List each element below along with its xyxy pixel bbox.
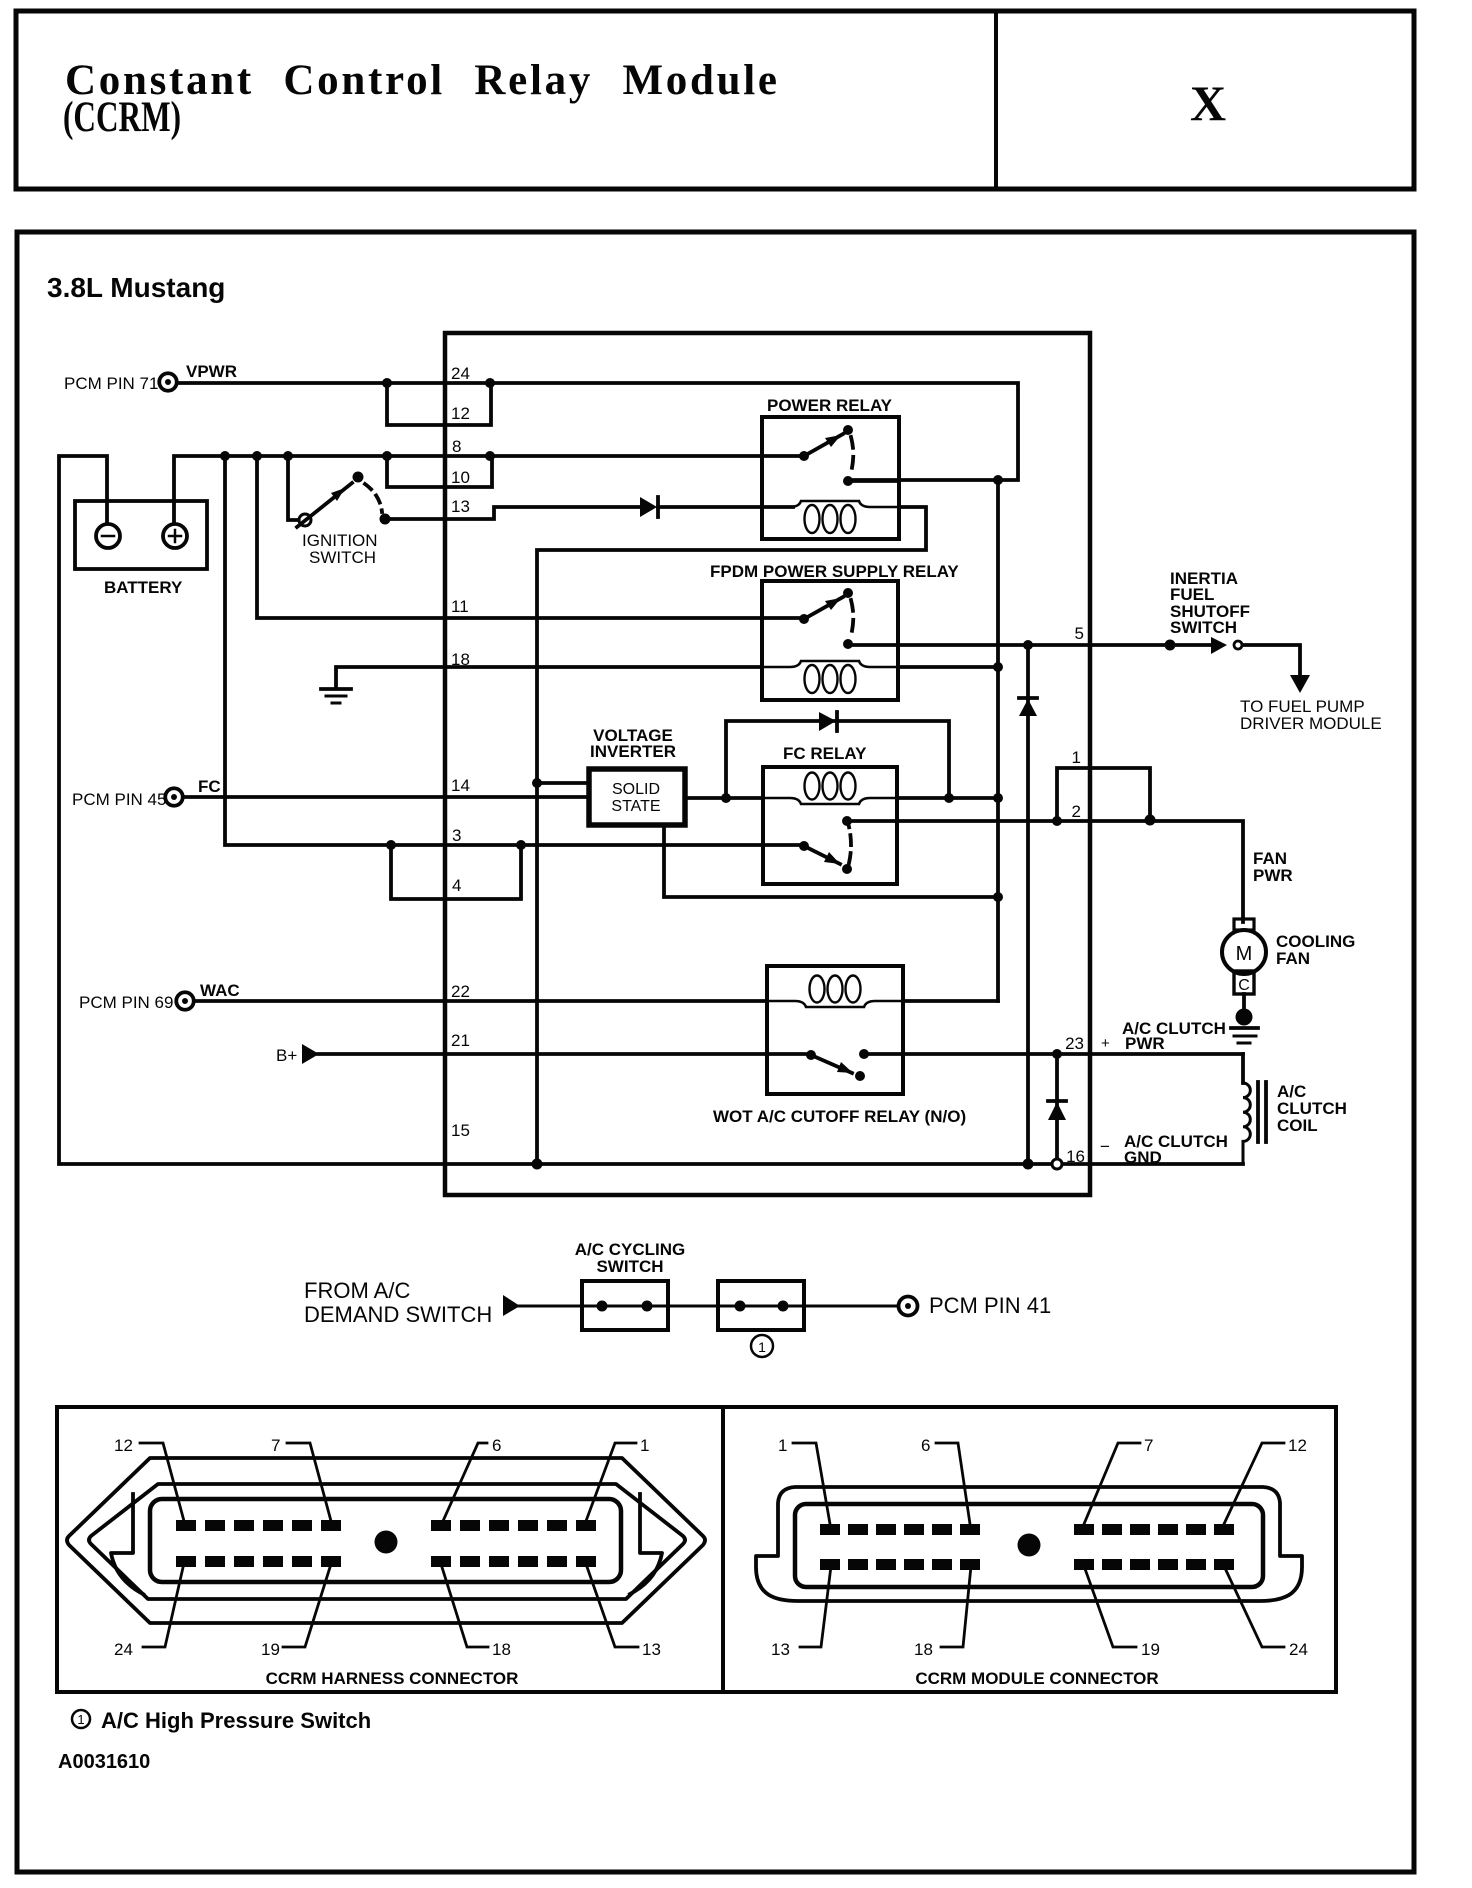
svg-text:FC: FC (198, 777, 221, 796)
switch contacts of WOT relay (806, 1049, 869, 1081)
harness connector pin callouts (140, 1443, 638, 1647)
node PCM PIN 41 terminal (899, 1293, 1052, 1318)
wire solid state output to FC relay coil (686, 796, 763, 800)
node FROM A/C DEMAND SWITCH (304, 1278, 520, 1327)
label A/C CLUTCH GND (1100, 1132, 1228, 1167)
wire B+ to WOT relay contact (318, 1052, 811, 1056)
solid state module U1 (589, 769, 685, 825)
wire FC bypass diode loop (726, 721, 949, 798)
node B+ input (276, 1044, 319, 1065)
junction dot on left vertical (532, 778, 542, 788)
svg-text:SWITCH: SWITCH (596, 1257, 663, 1276)
wire diode branch pin5 to ground line (1026, 645, 1030, 1164)
svg-text:10: 10 (451, 468, 470, 487)
svg-text:15: 15 (451, 1121, 470, 1140)
module connector center post (1018, 1534, 1041, 1557)
svg-text:FAN: FAN (1276, 949, 1310, 968)
switch A/C cycling switch contacts (582, 1281, 668, 1330)
diode on bypass loop pointing right (819, 712, 837, 731)
pin number labels left edge (451, 364, 470, 1140)
svg-text:7: 7 (271, 1436, 280, 1455)
module connector pins bottom row (820, 1559, 1234, 1570)
wire A/C demand to PCM pin 41 (519, 1305, 898, 1308)
pin number labels right edge (1065, 624, 1085, 1166)
svg-text:12: 12 (114, 1436, 133, 1455)
junction dots FC area (721, 793, 1156, 826)
svg-text:5: 5 (1075, 624, 1084, 643)
node PCM PIN 45 terminal (72, 777, 221, 809)
relay FPDM POWER SUPPLY RELAY (710, 562, 959, 700)
switch contacts of FC relay (799, 816, 852, 874)
svg-text:(CCRM): (CCRM) (63, 94, 181, 141)
switch IGNITION SWITCH (297, 472, 391, 568)
svg-text:COIL: COIL (1277, 1116, 1318, 1135)
wire power feed tap to solid state (537, 781, 588, 785)
svg-text:A0031610: A0031610 (58, 1751, 150, 1773)
arrow to fuel pump driver module (1290, 675, 1310, 693)
wire FC coil return to vertical bus (897, 796, 998, 800)
svg-text:−: − (1100, 1137, 1110, 1156)
label A/C CYCLING SWITCH (575, 1240, 686, 1276)
coil of power relay (762, 501, 899, 533)
wire pin 13 to power relay coil (385, 507, 793, 519)
svg-text:22: 22 (451, 982, 470, 1001)
junction dots on pin 8 wire (220, 451, 495, 461)
svg-text:DEMAND SWITCH: DEMAND SWITCH (304, 1302, 492, 1327)
node PCM PIN 69 terminal (79, 981, 240, 1012)
svg-text:2: 2 (1072, 802, 1081, 821)
svg-text:18: 18 (451, 650, 470, 669)
connector section frame (57, 1407, 1336, 1692)
svg-text:SWITCH: SWITCH (309, 548, 376, 567)
svg-text:PCM PIN 45: PCM PIN 45 (72, 790, 166, 809)
wire loop pins 3-4 (391, 845, 521, 899)
svg-text:+: + (1101, 1035, 1110, 1052)
title text (63, 57, 777, 141)
svg-text:8: 8 (452, 437, 461, 456)
svg-text:WOT A/C CUTOFF RELAY (N/O): WOT A/C CUTOFF RELAY (N/O) (713, 1107, 966, 1126)
coil of FPDM relay (762, 661, 898, 693)
svg-text:C: C (1238, 977, 1250, 994)
module connector pin callouts (793, 1443, 1284, 1647)
svg-text:12: 12 (1288, 1436, 1307, 1455)
svg-text:12: 12 (451, 404, 470, 423)
svg-text:VPWR: VPWR (186, 362, 237, 381)
node PCM PIN 71 terminal (64, 362, 237, 393)
svg-text:1: 1 (1072, 748, 1081, 767)
svg-text:1: 1 (77, 1712, 84, 1727)
svg-text:SOLID: SOLID (612, 781, 660, 798)
CCRM module box (445, 333, 1090, 1195)
svg-text:PCM PIN 71: PCM PIN 71 (64, 374, 158, 393)
junction dot pin 23 wire (1052, 1049, 1062, 1059)
callout circled 1 (751, 1335, 773, 1357)
svg-text:24: 24 (1289, 1640, 1308, 1659)
svg-text:FROM A/C: FROM A/C (304, 1278, 410, 1303)
battery BATTERY (75, 501, 207, 597)
wire inertia switch to fuel pump driver module (1243, 645, 1300, 675)
wire FC signal to solid state (184, 795, 588, 799)
svg-text:CCRM HARNESS CONNECTOR: CCRM HARNESS CONNECTOR (266, 1669, 519, 1688)
CCRM module connector outline (756, 1487, 1302, 1601)
junction dots ground line (532, 1159, 1034, 1170)
wire WOT coil return to vertical bus (903, 999, 998, 1003)
svg-text:PWR: PWR (1253, 866, 1293, 885)
wire solid state lower output to vertical bus (664, 826, 998, 897)
svg-text:19: 19 (1141, 1640, 1160, 1659)
wire pin 2 FC relay output to fan (847, 821, 1243, 922)
wire power relay coil return via left vertical to ground line (537, 507, 926, 1164)
svg-text:24: 24 (114, 1640, 133, 1659)
label FAN PWR (1253, 849, 1293, 885)
svg-text:SWITCH: SWITCH (1170, 618, 1237, 637)
junction ring diode to ground line (1052, 1159, 1062, 1169)
svg-text:4: 4 (452, 876, 461, 895)
junction dots FPDM area (993, 640, 1176, 673)
wire pin 5 output of FPDM relay (848, 643, 1212, 647)
label VOLTAGE INVERTER (590, 726, 676, 761)
wire loop pins 1-2 (1057, 768, 1150, 821)
diode clutch suppression pointing up (1048, 1101, 1066, 1120)
harness connector pins bottom row (176, 1556, 596, 1567)
svg-text:1: 1 (640, 1436, 649, 1455)
footnote A/C High Pressure Switch (72, 1708, 371, 1733)
motor COOLING FAN (1222, 919, 1355, 994)
svg-text:16: 16 (1066, 1147, 1085, 1166)
harness connector pin numbers (114, 1436, 661, 1659)
label A/C CLUTCH PWR (1101, 1019, 1226, 1053)
title block frame (16, 11, 1414, 189)
label TO FUEL PUMP DRIVER MODULE (1240, 697, 1382, 733)
svg-text:BATTERY: BATTERY (104, 578, 183, 597)
wire VPWR to pin 24 and power relay common (178, 383, 1018, 480)
wire battery negative return loop to pin 15 (59, 456, 1243, 1164)
wire main internal vertical bus (996, 480, 1000, 1001)
harness connector pins top row (176, 1520, 596, 1531)
svg-text:13: 13 (451, 497, 470, 516)
svg-text:13: 13 (771, 1640, 790, 1659)
svg-text:1: 1 (778, 1436, 787, 1455)
wire loop pins 24-12 (387, 383, 491, 425)
diode on pin5 branch pointing up (1019, 698, 1037, 716)
junction dots pin 3 wire (386, 840, 526, 850)
svg-text:6: 6 (492, 1436, 501, 1455)
svg-text:FPDM POWER SUPPLY RELAY: FPDM POWER SUPPLY RELAY (710, 562, 959, 581)
svg-text:23: 23 (1065, 1034, 1084, 1053)
wire feed to pin 3 line (225, 456, 804, 845)
svg-text:FC RELAY: FC RELAY (783, 744, 867, 763)
svg-text:WAC: WAC (200, 981, 240, 1000)
svg-text:11: 11 (451, 597, 469, 616)
svg-text:18: 18 (492, 1640, 511, 1659)
svg-text:DRIVER MODULE: DRIVER MODULE (1240, 714, 1382, 733)
svg-text:CCRM MODULE CONNECTOR: CCRM MODULE CONNECTOR (915, 1669, 1158, 1688)
relay POWER RELAY (762, 396, 899, 539)
svg-text:19: 19 (261, 1640, 280, 1659)
relay FC RELAY (763, 744, 897, 884)
svg-text:PCM PIN 69: PCM PIN 69 (79, 993, 173, 1012)
svg-text:A/C High Pressure Switch: A/C High Pressure Switch (101, 1708, 371, 1733)
battery B+ feed wire to pin 8 (174, 456, 804, 523)
svg-text:INVERTER: INVERTER (590, 742, 676, 761)
ground below cooling fan (1231, 994, 1258, 1043)
svg-text:GND: GND (1124, 1148, 1162, 1167)
svg-text:13: 13 (642, 1640, 661, 1659)
junction dots on pin 24 wire (382, 378, 1003, 485)
svg-text:18: 18 (914, 1640, 933, 1659)
wire pin 23 WOT output to A/C clutch (864, 1052, 1243, 1056)
ground pin 18 (321, 667, 762, 703)
svg-text:PWR: PWR (1125, 1034, 1165, 1053)
svg-text:14: 14 (451, 776, 470, 795)
inductor A/C CLUTCH COIL (1243, 1054, 1347, 1164)
wire clutch diode branch (1055, 1054, 1059, 1164)
svg-text:B+: B+ (276, 1046, 297, 1065)
svg-text:PCM PIN 41: PCM PIN 41 (929, 1293, 1051, 1318)
harness connector center post (375, 1531, 398, 1554)
svg-text:3: 3 (452, 826, 461, 845)
switch A/C high pressure switch contacts (718, 1281, 804, 1330)
svg-text:6: 6 (921, 1436, 930, 1455)
svg-text:7: 7 (1144, 1436, 1153, 1455)
svg-text:STATE: STATE (611, 798, 660, 815)
svg-text:POWER RELAY: POWER RELAY (767, 396, 893, 415)
coil of WOT relay (767, 976, 903, 1008)
wire FPDM coil return to vertical bus (898, 665, 998, 669)
coil of FC relay (763, 773, 897, 805)
wire loop pins 8-10 (387, 456, 492, 487)
CCRM harness connector outline (67, 1458, 705, 1623)
svg-text:24: 24 (451, 364, 470, 383)
svg-text:M: M (1236, 943, 1253, 965)
svg-text:3.8L Mustang: 3.8L Mustang (47, 272, 225, 303)
module connector pins top row (820, 1524, 1234, 1535)
wire feed to ignition switch (288, 456, 298, 520)
svg-text:21: 21 (451, 1031, 470, 1050)
junction dot vertical bus (993, 892, 1003, 902)
diode on pin 13 wire (640, 497, 658, 517)
wire WAC to WOT relay coil (195, 999, 767, 1003)
svg-text:X: X (1190, 75, 1226, 131)
switch INERTIA FUEL SHUTOFF SWITCH (1170, 569, 1250, 654)
relay WOT A/C CUTOFF RELAY (713, 966, 966, 1126)
module connector pin numbers (771, 1436, 1308, 1659)
svg-text:1: 1 (758, 1339, 766, 1355)
wire feed to pin 11 line (257, 456, 804, 618)
